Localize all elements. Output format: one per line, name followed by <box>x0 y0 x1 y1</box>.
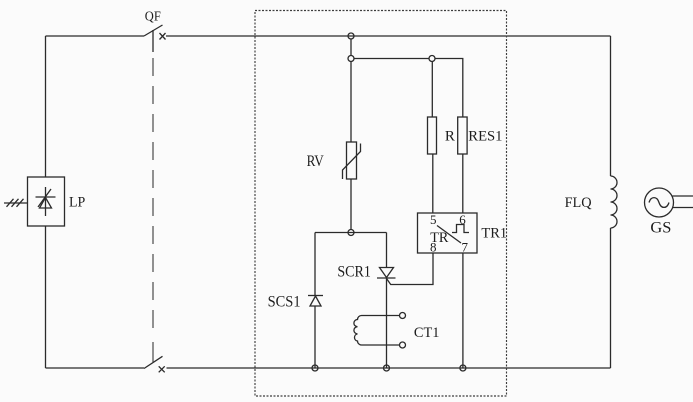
svg-text:RV: RV <box>307 153 325 170</box>
varistor RV diagonal symbol <box>343 144 361 180</box>
breaker QF top contact x mark <box>160 33 166 40</box>
wire: SCS1 down to bottom rail <box>314 306 316 368</box>
generator GS sine wave <box>649 198 669 208</box>
thyristor SCR1 cathode bar <box>377 277 396 279</box>
node D junction circle <box>348 230 354 236</box>
generator GS circle <box>645 188 674 217</box>
svg-text:QF: QF <box>145 9 161 24</box>
wire: node C to RES1 branch <box>435 59 463 118</box>
node I bottom rail junction circle (TR1 pin 7 branch) <box>460 365 466 371</box>
wire: bottom rail left segment <box>46 367 145 369</box>
wire: top rail right segment <box>166 35 611 37</box>
svg-text:FLQ: FLQ <box>565 195 592 211</box>
wire: node A to node B vertical <box>350 39 352 56</box>
transformer CT1 bottom terminal circle <box>400 342 406 348</box>
arrester LP box <box>28 177 65 226</box>
breaker QF linkage solid stub <box>152 30 154 52</box>
breaker QF bottom contact x mark <box>159 366 165 372</box>
wire: SCR1 gate to TR1 pin 8 <box>387 253 433 285</box>
node G bottom rail junction circle (SCS1 branch) <box>312 365 318 371</box>
resistor RES1 body <box>458 117 467 154</box>
diode SCS1 triangle <box>310 296 321 306</box>
relay TR1 delay pulse symbol <box>452 225 469 233</box>
arrester LP triangle <box>40 198 52 209</box>
breaker QF top pole blade <box>144 25 163 36</box>
wire: RES1 down to TR1 pin 6 <box>462 154 464 214</box>
wire: left branch down to SCS1 <box>314 233 316 296</box>
transformer CT1 winding <box>354 316 399 346</box>
diode SCS1 cathode bar <box>308 295 323 297</box>
resistor R body <box>428 117 437 154</box>
wire: node D horizontal bus <box>315 232 387 234</box>
ground lead from LP <box>4 202 28 204</box>
timer relay TR1 box <box>418 213 478 253</box>
wire: left vertical upper (to LP) <box>45 36 47 177</box>
svg-text:GS: GS <box>650 220 671 237</box>
svg-text:SCS1: SCS1 <box>268 293 301 310</box>
node C junction circle <box>429 56 435 62</box>
arrester LP diagonal strike <box>38 189 51 207</box>
wire: top rail left segment <box>46 35 145 37</box>
wire: TR1 pin 7 down to bottom rail <box>462 253 464 368</box>
svg-text:SCR1: SCR1 <box>337 263 371 280</box>
svg-text:R: R <box>445 128 455 144</box>
transformer CT1 top terminal circle <box>400 313 406 319</box>
svg-text:5: 5 <box>430 212 437 227</box>
wire: right vertical lower (FLQ to bottom rail) <box>610 228 612 368</box>
wire: right branch down to SCR1 <box>386 233 388 268</box>
generator output line upper <box>673 195 693 197</box>
arrester LP internal vertical lead <box>45 187 47 216</box>
arrester LP crossbar <box>36 196 56 198</box>
breaker QF bottom pole blade <box>144 356 163 368</box>
relay TR1 switch blade <box>437 226 461 244</box>
svg-text:CT1: CT1 <box>414 325 440 341</box>
svg-text:LP: LP <box>69 195 85 211</box>
wire: node B down to RV <box>350 62 352 143</box>
wire: bottom rail right segment <box>167 367 611 369</box>
generator output line lower <box>673 207 693 209</box>
dashed enclosure box <box>255 11 507 397</box>
wire: right vertical upper (to FLQ) <box>610 36 612 176</box>
varistor RV body <box>347 142 357 179</box>
wire: RV down to node D <box>350 179 352 230</box>
node A junction circle on top rail <box>348 33 354 39</box>
wire: R down to TR1 pin 5 <box>432 154 434 214</box>
breaker QF linkage final dash <box>152 342 154 362</box>
ground hatch marks <box>7 199 24 207</box>
inductor FLQ coil <box>611 176 618 228</box>
svg-text:TR1: TR1 <box>481 226 507 242</box>
wire: SCR1 cathode down through CT1 to bottom rail <box>386 278 388 368</box>
node B junction circle <box>348 56 354 62</box>
breaker QF linkage dashed line <box>152 58 154 334</box>
wire: node C down to R <box>431 62 433 118</box>
thyristor SCR1 triangle <box>380 268 394 278</box>
svg-text:RES1: RES1 <box>468 129 502 145</box>
svg-text:7: 7 <box>462 239 469 254</box>
wire: left vertical lower (LP to bottom rail) <box>45 226 47 368</box>
wire: node B to node C horizontal <box>354 58 429 60</box>
node H bottom rail junction circle (SCR1 branch) <box>384 365 390 371</box>
